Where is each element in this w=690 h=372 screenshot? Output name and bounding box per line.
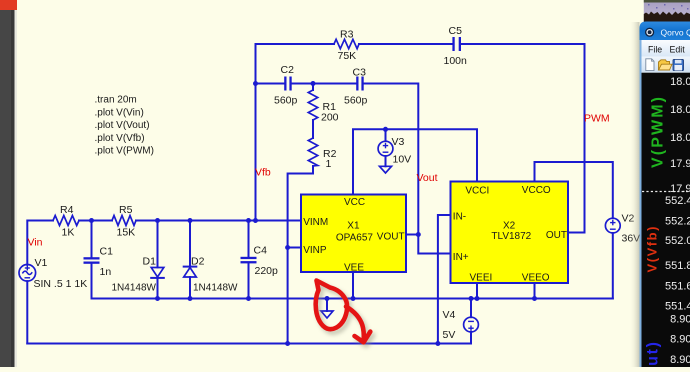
svg-text:R3: R3 bbox=[340, 29, 354, 41]
ground symbol stem bbox=[326, 299, 328, 312]
wire V4 top lead bbox=[470, 299, 472, 318]
wire X1 VEE lead bbox=[352, 272, 354, 299]
wire D1 top lead bbox=[157, 221, 159, 268]
svg-text:VEEI: VEEI bbox=[470, 273, 493, 284]
junction VEEI node bbox=[475, 296, 480, 301]
svg-text:.plot V(PWM): .plot V(PWM) bbox=[95, 146, 154, 157]
wire D2 top lead bbox=[189, 221, 191, 267]
resistor R1 bbox=[308, 90, 317, 120]
svg-text:200: 200 bbox=[321, 112, 339, 124]
svg-text:551.4: 551.4 bbox=[665, 301, 690, 313]
svg-text:560p: 560p bbox=[344, 95, 368, 107]
svg-text:OUT: OUT bbox=[546, 230, 567, 241]
junction V3 top bbox=[383, 127, 388, 132]
svg-text:V1: V1 bbox=[35, 257, 48, 269]
svg-text:1N4148W: 1N4148W bbox=[193, 283, 238, 294]
svg-text:17.9: 17.9 bbox=[670, 183, 690, 195]
window icon bbox=[645, 28, 654, 37]
icon save floppy bbox=[673, 60, 684, 71]
wire VEE rail bbox=[92, 298, 613, 300]
svg-text:552.0: 552.0 bbox=[665, 235, 690, 247]
svg-text:V(PWM): V(PWM) bbox=[650, 97, 667, 168]
wire X1 VOUT to IN+ bbox=[406, 235, 451, 254]
svg-text:.tran 20m: .tran 20m bbox=[95, 95, 137, 106]
wire V4 bottom lead bbox=[470, 332, 472, 344]
svg-text:.plot V(Vout): .plot V(Vout) bbox=[95, 120, 150, 131]
svg-text:SIN .5 1 1K: SIN .5 1 1K bbox=[34, 278, 88, 290]
svg-text:Edit: Edit bbox=[670, 45, 686, 55]
wire VINP stub bbox=[288, 247, 301, 249]
svg-text:R4: R4 bbox=[60, 204, 74, 216]
wire X2 VEEI lead bbox=[476, 283, 478, 299]
op-amp X2 body bbox=[451, 182, 569, 284]
svg-text:18.0: 18.0 bbox=[670, 132, 690, 144]
svg-text:15K: 15K bbox=[117, 227, 136, 239]
wire R1 top lead bbox=[312, 84, 314, 91]
svg-text:Vfb: Vfb bbox=[255, 167, 271, 179]
icon new file bbox=[646, 59, 654, 71]
junction Vfb bottom rail bbox=[285, 341, 290, 346]
svg-text:8.90: 8.90 bbox=[670, 314, 690, 326]
svg-text:Vin: Vin bbox=[28, 237, 43, 249]
toolbar bbox=[642, 57, 690, 73]
wire C2 to C3 bbox=[292, 83, 357, 85]
menu bar bbox=[642, 40, 690, 57]
svg-text:220p: 220p bbox=[255, 265, 279, 277]
op-amp X1 body bbox=[301, 195, 406, 273]
axis numbers bbox=[665, 76, 690, 366]
icon open folder bbox=[659, 60, 673, 70]
title bar bbox=[640, 22, 690, 41]
svg-text:17.9: 17.9 bbox=[670, 158, 690, 170]
junction ground node bbox=[325, 296, 330, 301]
wire Vfb node column bbox=[255, 84, 257, 221]
left dark application bar bbox=[0, 0, 15, 367]
junction Vfb top node bbox=[253, 81, 258, 86]
wire R3 to C5 bbox=[359, 43, 452, 45]
svg-text:560p: 560p bbox=[274, 95, 298, 107]
junction C1 top bbox=[89, 218, 94, 223]
svg-text:Qorvo Q: Qorvo Q bbox=[661, 28, 690, 38]
svg-text:VINP: VINP bbox=[303, 245, 327, 256]
svg-text:C1: C1 bbox=[100, 246, 114, 258]
svg-text:V4: V4 bbox=[443, 309, 456, 321]
wire R4 to R5 bbox=[79, 220, 112, 222]
wire V2 bottom lead bbox=[612, 233, 614, 299]
wire C5 to PWM corner bbox=[461, 44, 585, 233]
wire C1 top lead bbox=[91, 221, 93, 258]
svg-text:V(Vfb): V(Vfb) bbox=[645, 227, 660, 273]
junction Vout node bbox=[416, 232, 421, 237]
svg-text:5V: 5V bbox=[443, 329, 456, 341]
svg-text:75K: 75K bbox=[338, 50, 357, 62]
svg-text:V(Vout): V(Vout) bbox=[645, 342, 662, 367]
svg-text:1: 1 bbox=[326, 158, 332, 170]
window drop shadow bbox=[629, 22, 640, 367]
junction VINM node bbox=[253, 218, 258, 223]
wire R1 to R2 bbox=[312, 120, 314, 138]
svg-text:File: File bbox=[648, 45, 662, 55]
annotation red arrow bbox=[346, 307, 364, 341]
svg-text:1K: 1K bbox=[62, 227, 75, 239]
svg-text:Vout: Vout bbox=[417, 172, 438, 184]
component labels black bbox=[34, 25, 641, 341]
voltage source V1 bbox=[19, 265, 36, 282]
capacitor C4 bbox=[241, 257, 257, 264]
junction VEEO node bbox=[532, 296, 537, 301]
wire input row to VINM bbox=[136, 220, 301, 222]
svg-text:IN+: IN+ bbox=[453, 252, 469, 263]
annotation red circle around ground bbox=[316, 281, 371, 343]
svg-text:1n: 1n bbox=[100, 266, 112, 278]
svg-text:100n: 100n bbox=[444, 55, 468, 67]
svg-text:1N4148W: 1N4148W bbox=[112, 283, 157, 294]
wire D2 bottom lead bbox=[189, 277, 191, 299]
capacitor C2 bbox=[284, 77, 291, 91]
wire X2 VCCO to V2 bbox=[535, 162, 613, 218]
svg-text:C4: C4 bbox=[254, 245, 268, 257]
svg-text:PWM: PWM bbox=[584, 113, 610, 125]
annotation shadow bbox=[318, 284, 373, 346]
wire C4 top lead bbox=[248, 221, 250, 257]
resistor R5 bbox=[112, 216, 136, 226]
svg-text:VEEO: VEEO bbox=[522, 273, 550, 284]
svg-text:.plot V(Vin): .plot V(Vin) bbox=[95, 107, 144, 118]
wire C1 bottom lead bbox=[91, 264, 93, 299]
wire top feedback net left vertical bbox=[256, 44, 335, 84]
svg-text:X1: X1 bbox=[347, 221, 360, 232]
voltage source V3 bbox=[378, 141, 393, 156]
junction C4 top bbox=[246, 218, 251, 223]
resistor R2 bbox=[308, 138, 317, 166]
svg-text:D2: D2 bbox=[191, 256, 205, 268]
ground symbol triangle bbox=[321, 311, 333, 318]
wire X2 VEEO lead bbox=[534, 283, 536, 299]
wire C4 bottom lead bbox=[248, 263, 250, 298]
junction D2 top bbox=[188, 218, 193, 223]
wire X1 VCC to V3 to X2 VCCI bbox=[353, 129, 477, 194]
plot black area bbox=[642, 73, 690, 367]
junction C4 bottom bbox=[246, 296, 251, 301]
capacitor C3 bbox=[356, 77, 363, 91]
svg-text:IN-: IN- bbox=[453, 212, 466, 223]
svg-text:551.6: 551.6 bbox=[665, 281, 690, 293]
junction VINP node bbox=[285, 245, 290, 250]
window left edge bbox=[640, 40, 642, 367]
resistor R3 bbox=[334, 39, 359, 48]
red corner marker bbox=[0, 0, 17, 10]
wire V1 bottom lead bbox=[26, 281, 28, 343]
svg-text:C5: C5 bbox=[449, 25, 463, 37]
svg-text:V3: V3 bbox=[392, 136, 405, 148]
svg-text:D1: D1 bbox=[143, 256, 157, 268]
capacitor C1 bbox=[84, 257, 100, 264]
svg-text:18.0: 18.0 bbox=[670, 76, 690, 88]
waveform viewer window bbox=[640, 22, 690, 372]
svg-text:C3: C3 bbox=[353, 67, 367, 79]
svg-text:X2: X2 bbox=[503, 221, 516, 232]
svg-text:552.2: 552.2 bbox=[665, 216, 690, 228]
junction VEE node bbox=[351, 296, 356, 301]
svg-text:8.90: 8.90 bbox=[670, 334, 690, 346]
svg-text:R5: R5 bbox=[119, 204, 133, 216]
wire C3 to Vout corner down to VOUT node bbox=[364, 84, 419, 235]
wire R2 bottom to Vfb column bbox=[288, 166, 313, 344]
svg-text:C2: C2 bbox=[281, 64, 295, 76]
desktop photo top right bbox=[644, 0, 690, 22]
wire V3 top lead bbox=[385, 129, 387, 141]
wire V1 top to R4 bbox=[27, 221, 53, 265]
wire C2 row left bbox=[256, 83, 285, 85]
junction IN- bottom rail bbox=[435, 341, 440, 346]
diode D2 bbox=[184, 267, 197, 277]
svg-text:551.8: 551.8 bbox=[665, 260, 690, 272]
svg-text:OPA657: OPA657 bbox=[336, 233, 373, 244]
pane separator dotted bbox=[642, 191, 690, 193]
wire D1 bottom lead bbox=[157, 279, 159, 299]
svg-text:8.90: 8.90 bbox=[670, 354, 690, 366]
ground symbol V3 bbox=[380, 166, 392, 173]
svg-text:VCC: VCC bbox=[344, 197, 365, 208]
junction D1 top bbox=[155, 218, 160, 223]
svg-text:18.0: 18.0 bbox=[670, 104, 690, 116]
voltage source V2 bbox=[605, 218, 620, 233]
svg-text:VOUT: VOUT bbox=[377, 232, 405, 243]
svg-text:TLV1872: TLV1872 bbox=[491, 231, 531, 242]
wire V3 bottom lead bbox=[385, 156, 387, 166]
svg-text:VCCO: VCCO bbox=[522, 185, 551, 196]
svg-text:VINM: VINM bbox=[303, 217, 328, 228]
wire bottom return rail bbox=[27, 343, 471, 345]
svg-text:VCCI: VCCI bbox=[465, 186, 489, 197]
net labels red bbox=[28, 113, 610, 249]
svg-text:VEE: VEE bbox=[344, 263, 364, 274]
diode D1 bbox=[151, 268, 164, 278]
voltage source V4 bbox=[464, 317, 479, 332]
svg-text:552.4: 552.4 bbox=[665, 195, 690, 207]
resistor R4 bbox=[53, 216, 79, 226]
capacitor C5 bbox=[452, 37, 461, 51]
junction D1 bottom bbox=[155, 296, 160, 301]
junction D2 bottom bbox=[188, 296, 193, 301]
junction V4 top bbox=[469, 296, 474, 301]
wire X2 IN- to ground rail bbox=[438, 215, 451, 344]
svg-text:10V: 10V bbox=[393, 154, 412, 166]
svg-text:.plot V(Vfb): .plot V(Vfb) bbox=[95, 133, 145, 144]
junction R1 top node bbox=[311, 81, 316, 86]
